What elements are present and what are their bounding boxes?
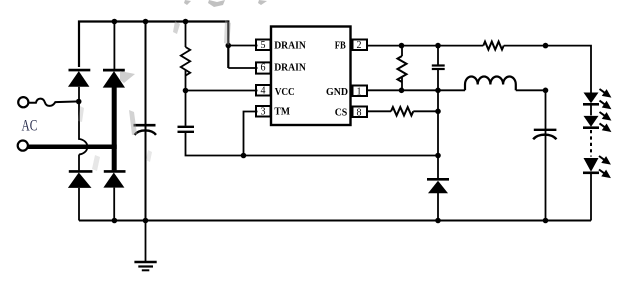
IC U1 LED-driver controller body <box>271 27 351 126</box>
wire LED dotted continuation <box>590 130 592 157</box>
wire C3 bottom lead <box>437 69 439 90</box>
diode D4 bridge bottom-middle <box>103 171 125 187</box>
wire C3 top lead <box>437 46 439 65</box>
terminal AC live <box>18 97 28 107</box>
node C5 bottom rail junction <box>543 218 549 224</box>
svg-text:AC: AC <box>22 118 38 135</box>
wire FB line <box>367 45 483 47</box>
wire inductor to output node <box>516 89 546 91</box>
node FB R2 junction <box>399 43 405 49</box>
svg-text:3: 3 <box>261 107 266 118</box>
LED LED3 <box>583 158 599 173</box>
scan artifact marks <box>78 0 267 171</box>
wire R1 column top <box>185 22 187 48</box>
wire R2 bottom lead <box>401 77 403 90</box>
wire AC neutral thick <box>28 144 117 149</box>
resistor R4 feedback horizontal <box>483 42 503 50</box>
node FB output junction <box>543 43 549 49</box>
wire D2 anode thick to AC neutral <box>112 87 117 170</box>
svg-text:5: 5 <box>261 40 266 51</box>
LED LED3 arrows <box>599 156 609 177</box>
svg-text:8: 8 <box>357 108 362 119</box>
pin 5 box <box>256 40 271 51</box>
wire top rail <box>79 22 228 69</box>
node D5 bottom rail junction <box>435 218 441 224</box>
wire FB line right <box>504 46 591 93</box>
ground <box>134 221 156 271</box>
wire LED3 to bottom rail <box>590 173 592 221</box>
wire LED1 to LED2 <box>590 104 592 115</box>
wire CS to column <box>413 110 438 112</box>
node C3 GND junction <box>435 88 441 94</box>
capacitor C1 electrolytic bulk <box>134 125 157 135</box>
wire VCC node to C2 <box>185 91 187 126</box>
svg-text:6: 6 <box>261 63 266 74</box>
svg-text:CS: CS <box>335 107 348 119</box>
wire C2 bottom to TM line <box>186 132 439 156</box>
svg-text:4: 4 <box>261 86 266 97</box>
svg-text:VCC: VCC <box>275 86 295 98</box>
node R2 GND junction <box>399 88 405 94</box>
capacitor C5 output electrolytic <box>533 130 556 140</box>
node top-rail junction C1 column <box>143 19 149 25</box>
node AC-live junction <box>76 99 82 105</box>
wire column 438 down <box>437 90 439 178</box>
svg-text:2: 2 <box>357 40 362 51</box>
inductor L1 <box>465 76 516 90</box>
svg-text:TM: TM <box>274 106 290 118</box>
svg-text:DRAIN: DRAIN <box>274 62 306 74</box>
svg-text:DRAIN: DRAIN <box>274 40 306 52</box>
svg-text:FB: FB <box>335 40 347 52</box>
wire VCC to pin4 <box>186 90 258 92</box>
node inductor output junction <box>543 88 549 94</box>
capacitor C3 <box>432 66 445 70</box>
LED LED1 <box>583 93 599 105</box>
node FB C3 junction <box>435 43 441 49</box>
diode D2 bridge top-middle <box>103 70 125 88</box>
node C1 bottom rail junction <box>143 218 149 224</box>
pin 2 box <box>353 40 368 51</box>
LED LED2 arrows <box>600 112 610 131</box>
node CS column junction <box>435 109 441 115</box>
node VCC junction <box>183 88 189 94</box>
wire D4 anode to bottom rail <box>113 188 115 221</box>
pin 4 box <box>256 85 271 96</box>
resistor R3 CS sense <box>391 107 413 115</box>
LED LED1 arrows <box>600 89 610 108</box>
wire to D3 <box>78 155 80 171</box>
wire to pin5 <box>228 45 257 47</box>
wire GND line to inductor <box>367 89 465 91</box>
wire D3 anode to bottom rail <box>78 188 80 221</box>
fuse F1 <box>28 99 76 106</box>
wire D2 cathode to top rail <box>113 22 115 70</box>
pin 6 box <box>256 62 271 73</box>
node top-rail junction R1 column <box>183 19 189 25</box>
wire output cap column <box>545 90 547 220</box>
terminal AC neutral <box>18 141 28 151</box>
diode D3 bridge bottom-left <box>68 171 93 188</box>
wire CS line <box>367 110 391 112</box>
node top-rail junction D2 column <box>112 19 118 25</box>
pin 1 box <box>353 86 368 97</box>
pin 8 box <box>353 107 368 118</box>
node TM line junction <box>241 153 247 159</box>
svg-text:1: 1 <box>357 87 362 98</box>
wire R2 top lead <box>401 46 403 56</box>
resistor R2 FB lower <box>398 56 407 82</box>
diode D5 freewheel <box>427 179 449 193</box>
node D4 bottom rail junction <box>112 218 118 224</box>
svg-text:GND: GND <box>326 86 348 98</box>
wire bottom rail <box>79 220 591 222</box>
wire D5 anode to bottom rail <box>437 193 439 221</box>
wire C1 column top <box>145 22 147 221</box>
pin 3 box <box>256 106 271 117</box>
wire hop over AC neutral <box>79 102 87 155</box>
resistor R1 vertical startup <box>181 47 190 76</box>
diode D1 bridge top-left <box>68 70 90 87</box>
LED LED2 <box>583 116 599 128</box>
wire pin3 TM <box>244 112 258 156</box>
wire R1 to VCC node <box>185 70 187 91</box>
wire D1 anode to AC junction <box>78 87 80 102</box>
wire to pin6 <box>228 67 257 69</box>
node TM-CS column junction <box>435 153 441 159</box>
capacitor C2 VCC <box>178 127 195 132</box>
node drain split <box>226 43 232 49</box>
